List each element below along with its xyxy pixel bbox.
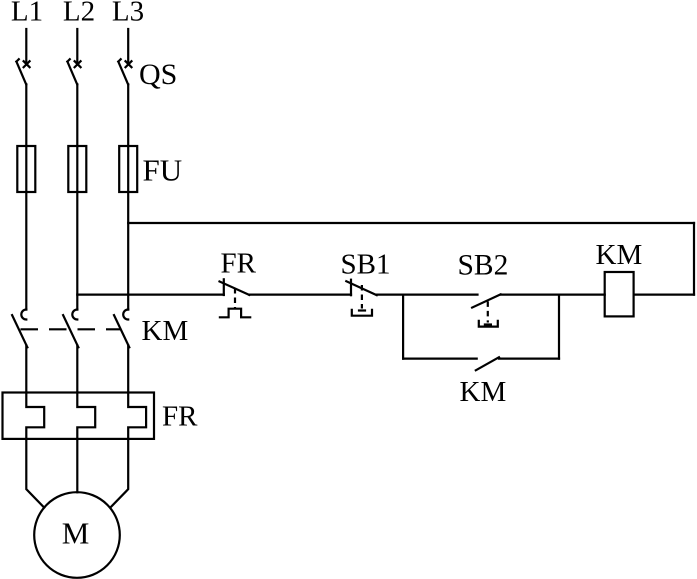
svg-text:KM: KM bbox=[460, 376, 507, 408]
wire top rail bbox=[128, 222, 694, 224]
wire L3 to fuse and contact bbox=[127, 84, 129, 309]
thermal element FR pole 2 bbox=[77, 393, 95, 440]
contactor KM main contact 2 bbox=[63, 310, 78, 348]
dashed linkage of KM main contacts bbox=[21, 328, 122, 330]
node L2 bbox=[63, 0, 95, 28]
fuse FU pole 3 bbox=[119, 146, 137, 192]
wire control rail from L2 tap to FR contact bbox=[77, 294, 224, 296]
label QS bbox=[139, 58, 177, 91]
fuse FU pole 1 bbox=[17, 146, 35, 192]
svg-text:FR: FR bbox=[162, 401, 198, 433]
SB2 plunger bbox=[479, 301, 498, 326]
label KM coil bbox=[596, 239, 643, 271]
thermal relay contact FR (NC) bbox=[220, 279, 250, 295]
svg-text:M: M bbox=[62, 516, 90, 551]
svg-text:KM: KM bbox=[596, 239, 643, 271]
node L3 bbox=[112, 0, 144, 28]
wire FR contact to SB1 bbox=[249, 294, 351, 296]
disconnect switch QS pole 3 bbox=[118, 59, 131, 84]
wire L2 contact to FR box bbox=[76, 346, 78, 393]
coil KM bbox=[605, 272, 634, 316]
svg-text:L3: L3 bbox=[112, 0, 144, 28]
wire motor lead 3 bbox=[110, 439, 128, 508]
wire branch right riser bbox=[558, 295, 560, 359]
auxiliary contact KM (NO) bbox=[476, 357, 499, 370]
FR trip actuator bbox=[220, 288, 250, 317]
disconnect switch QS pole 2 bbox=[67, 59, 80, 84]
SB1 plunger bbox=[352, 285, 372, 316]
svg-text:SB2: SB2 bbox=[458, 250, 509, 282]
pushbutton SB2 (NO start) bbox=[472, 294, 501, 307]
svg-text:L1: L1 bbox=[11, 0, 43, 28]
wire L1 drop bbox=[25, 29, 27, 64]
wire L2 drop bbox=[76, 29, 78, 64]
svg-text:FR: FR bbox=[221, 248, 257, 280]
wire branch bottom right bbox=[499, 358, 559, 360]
wire L1 to fuse and contact bbox=[25, 84, 27, 309]
svg-text:SB1: SB1 bbox=[341, 249, 391, 281]
label SB2 bbox=[458, 250, 509, 282]
label SB1 bbox=[341, 249, 391, 281]
wire L3 contact to FR box bbox=[127, 346, 129, 393]
thermal element FR pole 1 bbox=[26, 393, 44, 440]
svg-text:FU: FU bbox=[143, 153, 183, 188]
label KM aux contact bbox=[460, 376, 507, 408]
wire right side drop bbox=[693, 223, 695, 295]
wire SB1 to SB2 bbox=[377, 294, 478, 296]
wire motor lead 2 bbox=[76, 439, 78, 492]
disconnect switch QS pole 1 bbox=[16, 59, 29, 84]
pushbutton SB1 (NC stop) bbox=[346, 280, 376, 296]
wire branch left drop bbox=[402, 295, 404, 359]
wire coil to right side bbox=[634, 294, 694, 296]
thermal element FR pole 3 bbox=[128, 393, 146, 440]
label KM main contacts bbox=[142, 315, 189, 347]
contactor KM main contact 1 bbox=[12, 310, 27, 348]
svg-text:QS: QS bbox=[139, 58, 177, 91]
wire motor lead 1 bbox=[26, 439, 44, 508]
label FU bbox=[143, 153, 183, 188]
node L1 bbox=[11, 0, 43, 28]
motor M circle bbox=[34, 492, 120, 578]
label M bbox=[62, 516, 90, 551]
contactor KM main contact 3 bbox=[114, 310, 129, 348]
svg-text:L2: L2 bbox=[63, 0, 95, 28]
thermal relay FR box bbox=[3, 393, 155, 439]
wire L1 contact to FR box bbox=[25, 346, 27, 393]
wire L3 drop bbox=[127, 29, 129, 64]
fuse FU pole 2 bbox=[68, 146, 86, 192]
label FR thermal relay bbox=[162, 401, 198, 433]
wire L2 to fuse and contact bbox=[76, 84, 78, 309]
label FR contact bbox=[221, 248, 257, 280]
wire SB2 to coil bbox=[501, 294, 605, 296]
svg-text:KM: KM bbox=[142, 315, 189, 347]
wire branch bottom left bbox=[403, 358, 477, 360]
